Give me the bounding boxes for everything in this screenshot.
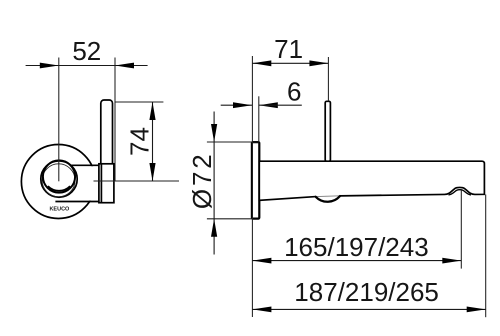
handle cylinder body mask	[77, 166, 100, 200]
dimension 6 right arrow	[259, 102, 278, 108]
handle cylinder bottom edge	[55, 201, 99, 203]
dimension 71 right arrow	[309, 60, 328, 66]
vertical centerline / 52 left extension	[58, 58, 60, 182]
dimension 6 line right tail	[259, 104, 302, 106]
74 bottom extension line / horizontal centerline	[94, 180, 180, 182]
svg-text:6: 6	[287, 77, 301, 107]
dimension 187 right arrow	[467, 307, 486, 313]
dimension 6 left arrow	[233, 102, 252, 108]
flange-right extension line	[258, 96, 260, 142]
aerator inner wave line	[449, 190, 472, 195]
dimension Ø72 bottom arrow	[211, 219, 217, 237]
spout body outline	[259, 161, 484, 200]
dimension 165 left arrow	[252, 258, 271, 264]
dimension 187/219/265 line	[252, 308, 485, 310]
lever top extension line	[327, 57, 329, 101]
dimension 52 left arrow	[40, 63, 59, 69]
dimension 74 top arrow	[149, 102, 155, 120]
Ø72 bottom extension line	[207, 218, 253, 220]
svg-text:Ø72: Ø72	[187, 152, 217, 210]
svg-text:165/197/243: 165/197/243	[284, 232, 429, 262]
dimension 6 line left tail	[221, 104, 252, 106]
dimension 74 bottom arrow	[149, 163, 155, 181]
wall / flange-left long extension line	[251, 56, 253, 317]
svg-text:187/219/265: 187/219/265	[294, 277, 439, 307]
aerator extension line	[460, 190, 462, 269]
knob thin offset circle	[42, 164, 75, 197]
dimension Ø72 top arrow	[211, 124, 217, 142]
knob inner thick circle	[43, 160, 75, 192]
lever bar (side view)	[325, 101, 330, 161]
dimension 165 right arrow	[442, 258, 461, 264]
cartridge dome chord lightening	[316, 195, 340, 198]
dimension 74 line	[152, 102, 154, 181]
svg-text:71: 71	[274, 34, 303, 64]
cartridge dome arc under spout	[316, 196, 340, 202]
dimension 71 line	[252, 62, 328, 64]
dimension 71 left arrow	[252, 60, 271, 66]
escutcheon circle	[21, 145, 95, 219]
dimension 187 left arrow	[252, 307, 271, 313]
svg-text:52: 52	[72, 36, 101, 66]
svg-text:74: 74	[125, 127, 155, 156]
knob chamfer bottom arc	[48, 186, 70, 191]
dimension 165/197/243 line	[252, 260, 461, 262]
wall flange plate	[252, 142, 259, 219]
knob outer circle	[41, 161, 77, 197]
spout tip extension line	[485, 195, 487, 318]
lever bar (left view)	[101, 100, 113, 200]
74 top extension line	[115, 101, 163, 103]
joint double line	[100, 164, 102, 203]
handle end block	[99, 164, 114, 203]
Ø72 top extension line	[207, 141, 259, 143]
handle cylinder top edge	[71, 164, 100, 166]
svg-text:KEUCO: KEUCO	[49, 207, 70, 213]
52 right extension line	[114, 58, 116, 182]
dimension 52 line	[26, 65, 148, 67]
dimension 52 right arrow	[115, 63, 134, 69]
dimension Ø72 line	[213, 112, 215, 255]
